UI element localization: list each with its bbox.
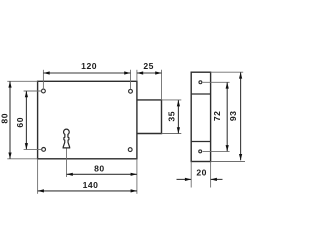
extension line side top edge right (211, 71, 244, 73)
screw hole top-right (129, 89, 133, 93)
extension line latch right edge up (161, 70, 163, 100)
svg-text:140: 140 (83, 180, 99, 190)
extension line latch top right (162, 99, 182, 101)
svg-text:80: 80 (0, 113, 9, 124)
extension line body left edge down (37, 159, 39, 194)
screw hole bottom-right (128, 148, 132, 152)
extension line side top hole right (203, 81, 230, 83)
extension line body right edge up (136, 70, 138, 82)
dimension 80 bottom (67, 173, 137, 175)
dimension 25 top (137, 72, 162, 74)
side view bottom divider (191, 141, 210, 143)
svg-text:20: 20 (196, 168, 207, 178)
side view top hole (199, 81, 202, 84)
dimension 120 top (43, 72, 130, 74)
dimension 72 side (226, 82, 228, 151)
extension line bottom-left screw left (24, 148, 42, 150)
dimension 80 left (9, 81, 11, 159)
svg-text:120: 120 (81, 61, 97, 71)
dimension 20 below side view (177, 178, 192, 180)
extension line body bottom-left left (7, 158, 37, 160)
side view bottom hole (199, 150, 202, 153)
svg-text:35: 35 (166, 111, 176, 122)
extension line side bottom edge right (211, 161, 245, 163)
dimension 60 left (25, 91, 27, 149)
svg-text:60: 60 (15, 117, 25, 128)
svg-text:93: 93 (228, 111, 238, 122)
extension line side right edge down (210, 162, 212, 188)
extension line from top-right screw up (130, 70, 132, 90)
extension line body top-left left (7, 80, 37, 82)
svg-text:80: 80 (94, 163, 105, 173)
bolt/latch box (137, 100, 162, 134)
extension line body right edge down (136, 159, 138, 194)
extension line from top-left screw up (42, 70, 44, 89)
lock body front view (38, 81, 137, 159)
extension line side left edge down (190, 162, 192, 188)
side view faceplate (191, 72, 210, 161)
keyhole (63, 129, 70, 148)
svg-text:25: 25 (143, 61, 154, 71)
extension line top-left screw left (24, 90, 42, 92)
screw hole top-left (42, 89, 46, 93)
dimension 93 side (240, 72, 242, 160)
extension line side bottom hole right (203, 150, 230, 152)
extension line keyhole down (66, 149, 68, 178)
side view top divider (191, 93, 210, 95)
dimension 140 bottom (38, 190, 137, 192)
screw hole bottom-left (42, 148, 46, 152)
svg-text:72: 72 (212, 111, 222, 122)
dimension 35 right of latch (177, 100, 179, 133)
extension line latch bottom right (162, 133, 182, 135)
